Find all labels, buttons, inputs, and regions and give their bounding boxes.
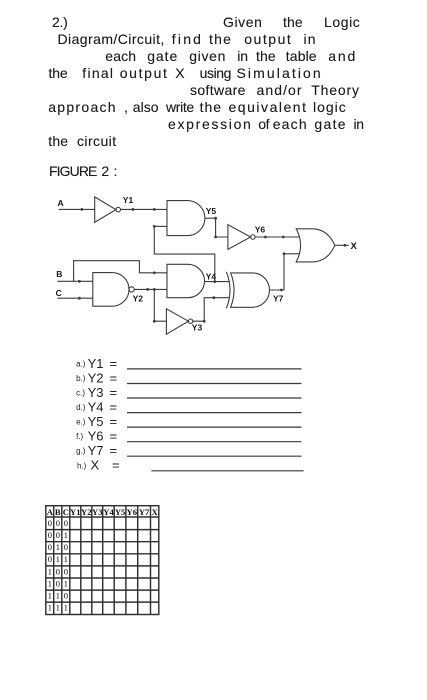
answer line a: [127, 368, 302, 370]
node on Y2 output: [146, 288, 156, 291]
svg-text:Y3: Y3: [92, 507, 103, 517]
svg-text:Y2: Y2: [88, 370, 104, 385]
svg-text:1: 1: [48, 591, 52, 601]
svg-text:Y4: Y4: [88, 400, 104, 415]
svg-text:d.): d.): [76, 403, 86, 412]
svg-text:1: 1: [64, 530, 68, 540]
answer line h: [151, 470, 303, 472]
wire Y4 output to XOR top input: [205, 281, 230, 283]
xor-gate Y7: [226, 272, 269, 309]
svg-text:=: =: [110, 356, 118, 371]
svg-text:=: =: [110, 370, 118, 385]
svg-text:Y6: Y6: [255, 225, 266, 235]
node at Y3 input corner: [153, 320, 156, 323]
equation row a: [76, 356, 117, 371]
answer line g: [127, 455, 302, 457]
svg-text:c.): c.): [76, 389, 85, 398]
problem statement line 3: [105, 49, 136, 63]
svg-text:Y4: Y4: [103, 507, 114, 517]
answer line b: [127, 383, 302, 385]
label input B: [56, 269, 62, 279]
equation row h: [77, 458, 120, 473]
truth table header: [47, 507, 159, 517]
svg-text:Y7: Y7: [273, 293, 284, 303]
svg-text:1: 1: [64, 554, 68, 564]
inverter Y1: [95, 197, 121, 223]
svg-text:0: 0: [64, 542, 69, 552]
node on B-to-Y4 wire: [153, 271, 156, 274]
svg-text:Y4: Y4: [206, 271, 217, 281]
svg-text:A: A: [58, 198, 64, 208]
svg-text:X: X: [351, 241, 358, 252]
svg-text:a.): a.): [76, 359, 86, 368]
svg-text:A: A: [47, 507, 54, 517]
equation row f: [76, 429, 117, 444]
svg-text:Y3: Y3: [88, 385, 104, 400]
svg-text:B: B: [56, 269, 62, 279]
svg-text:=: =: [112, 458, 120, 473]
svg-text:Y7: Y7: [88, 443, 104, 458]
wire Y6 to OR gate top input: [255, 236, 299, 238]
svg-text:Y1: Y1: [123, 195, 134, 205]
node on C wire: [78, 297, 81, 300]
svg-text:Y1: Y1: [70, 507, 81, 517]
wire Y3 output to XOR bottom input: [193, 298, 229, 322]
svg-text:Y6: Y6: [88, 429, 104, 444]
svg-text:Y1: Y1: [88, 356, 104, 371]
svg-text:0: 0: [56, 518, 61, 528]
label input C: [56, 288, 62, 298]
label Y2: [133, 294, 144, 304]
svg-text:C: C: [56, 288, 62, 298]
svg-text:0: 0: [56, 566, 61, 576]
wire Y5 bottom input: [154, 225, 167, 227]
answer line e: [127, 426, 302, 428]
svg-text:0: 0: [48, 518, 53, 528]
svg-text:0: 0: [64, 591, 69, 601]
svg-text:Y2: Y2: [81, 507, 92, 517]
label input A: [58, 198, 64, 208]
svg-text:1: 1: [48, 578, 52, 588]
equation row c: [76, 385, 117, 400]
svg-text:Y5: Y5: [115, 507, 126, 517]
wire Y5 output to Y6 input: [205, 218, 228, 237]
svg-text:=: =: [110, 443, 118, 458]
figure caption: [49, 164, 97, 178]
svg-text:1: 1: [48, 603, 52, 613]
problem statement line 7: [168, 117, 253, 131]
inverter Y6: [228, 225, 255, 250]
svg-text:=: =: [110, 400, 118, 415]
truth table data rows: [48, 518, 69, 613]
node on Y1 wire: [132, 208, 156, 211]
svg-text:g.): g.): [76, 447, 86, 456]
node Y4 output junction: [213, 280, 216, 283]
svg-text:1: 1: [56, 542, 60, 552]
wire Y2 output down to Y3 input: [154, 289, 166, 321]
node on Y3 output: [203, 296, 216, 322]
input A wire: [59, 208, 95, 210]
wire Y7 output to OR gate bottom input: [270, 254, 300, 290]
label Y7: [273, 293, 284, 303]
answer line d: [127, 412, 302, 414]
node on Y7 wire: [280, 252, 286, 291]
svg-text:0: 0: [48, 554, 53, 564]
problem statement line 5: [190, 83, 246, 97]
svg-text:B: B: [55, 507, 61, 517]
and-gate Y4: [167, 264, 205, 297]
svg-text:1: 1: [48, 566, 52, 576]
label Y6: [255, 225, 266, 235]
equation row g: [76, 443, 117, 458]
svg-text:e.): e.): [76, 418, 86, 427]
problem statement line 6: [48, 100, 117, 114]
svg-text:0: 0: [64, 518, 69, 528]
svg-text:Y3: Y3: [192, 322, 203, 332]
output X wire: [335, 244, 349, 246]
svg-text:0: 0: [64, 566, 69, 576]
node Y5 bottom input: [153, 225, 156, 228]
svg-text:0: 0: [48, 530, 53, 540]
nand-gate Y2: [93, 273, 134, 307]
problem statement line 8: [48, 134, 68, 148]
or-gate X: [296, 229, 335, 262]
equation row b: [76, 370, 117, 385]
svg-text:X: X: [91, 458, 100, 473]
svg-text:b.): b.): [76, 374, 86, 383]
node on Y6 wire: [264, 236, 285, 239]
svg-text:1: 1: [64, 578, 68, 588]
svg-text:Y7: Y7: [139, 507, 150, 517]
label Y1: [123, 195, 134, 205]
and-gate Y5: [167, 201, 205, 236]
inverter Y3: [166, 309, 192, 334]
wire B to Y4 top input: [74, 261, 167, 282]
node on X wire: [344, 244, 347, 247]
svg-text:Y6: Y6: [127, 507, 138, 517]
label output X: [351, 241, 358, 252]
svg-text:h.): h.): [77, 461, 87, 470]
svg-text:X: X: [152, 507, 159, 517]
svg-text:1: 1: [56, 603, 60, 613]
problem statement line 1: [52, 15, 68, 29]
svg-text:1: 1: [64, 603, 68, 613]
svg-text:1: 1: [56, 591, 60, 601]
wire Y2 output to Y4 bottom input: [134, 288, 167, 290]
truth table grid: [46, 506, 159, 615]
svg-text:C: C: [63, 507, 69, 517]
answer line c: [127, 397, 302, 399]
problem statement line 2: [58, 32, 165, 46]
node on A wire: [80, 208, 83, 211]
svg-text:Y2: Y2: [133, 294, 144, 304]
input C wire: [57, 297, 92, 299]
svg-text:Y5: Y5: [88, 414, 104, 429]
svg-text:0: 0: [56, 578, 61, 588]
svg-text:1: 1: [56, 554, 60, 564]
label Y3: [192, 322, 203, 332]
wire feedback from Y4 output to Y5 bottom input: [154, 226, 215, 281]
label Y5: [206, 206, 217, 216]
wire Y1 to Y5 top input: [121, 208, 168, 210]
svg-text:0: 0: [56, 530, 61, 540]
node on B wire: [78, 280, 81, 283]
label Y4: [206, 271, 217, 281]
svg-text:=: =: [110, 429, 118, 444]
svg-text:Y5: Y5: [206, 206, 217, 216]
svg-text:0: 0: [48, 542, 53, 552]
problem statement line 4: [49, 66, 68, 80]
equation row e: [76, 414, 117, 429]
input B wire: [57, 280, 92, 282]
svg-text:f.): f.): [76, 432, 83, 441]
equation row d: [76, 400, 117, 415]
svg-text:=: =: [110, 385, 118, 400]
node Y5 output corners: [214, 217, 217, 239]
svg-text:=: =: [110, 414, 118, 429]
answer line f: [127, 441, 302, 443]
